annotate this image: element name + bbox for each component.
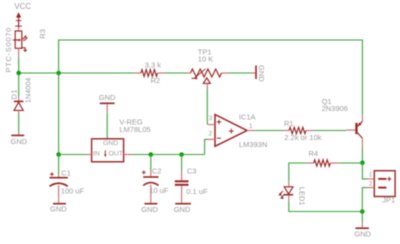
svg-text:JP1: JP1 [382, 196, 395, 205]
voltage regulator U2 LM78L05 [86, 139, 131, 162]
capacitor C1 100uF [50, 155, 68, 203]
wire 5V rail from OUT [131, 154, 205, 156]
junction (58.6,154.5) [56, 152, 61, 157]
wire JP1 pin1 from collector node [362, 163, 367, 179]
svg-text:VCC: VCC [14, 2, 31, 11]
svg-text:OUT: OUT [109, 151, 123, 158]
wire op-amp output to R1 [255, 130, 283, 132]
diode D1 1N4004 [14, 73, 24, 114]
wire bottom node to ground [361, 212, 363, 223]
svg-text:LM393N: LM393N [239, 140, 267, 149]
svg-text:GND: GND [103, 140, 118, 147]
svg-text:1N4004: 1N4004 [26, 78, 33, 103]
wire R4 line to collector node [339, 162, 362, 164]
svg-text:GND: GND [257, 65, 266, 82]
svg-text:PTC-S0070: PTC-S0070 [4, 27, 13, 73]
op-amp IC1A LM393N [208, 115, 255, 147]
resistor R2 3.3k [134, 70, 165, 77]
thermistor R3 (PTC-S0070) [13, 28, 28, 58]
junction collector node (362.4,162.8) [360, 161, 365, 166]
wire R2 to TP1 [165, 72, 187, 74]
svg-text:IN: IN [93, 151, 100, 158]
resistor R1 2.2k or 10k [284, 127, 314, 133]
junction node A (18.7,73) [16, 71, 21, 76]
ground under C1 [50, 204, 67, 214]
LED1 [278, 181, 293, 201]
svg-text:GND: GND [354, 229, 371, 238]
svg-text:R3: R3 [38, 29, 47, 39]
ground bottom right [354, 222, 371, 238]
capacitor C3 0.1uF [175, 155, 189, 203]
wire VCC raw node vertical left [18, 58, 20, 73]
svg-text:2: 2 [369, 181, 373, 188]
svg-text:C2: C2 [152, 166, 162, 175]
wire x=58.6 down to regulator input [58, 73, 60, 155]
svg-text:IC1A: IC1A [239, 112, 256, 121]
svg-text:LED1: LED1 [298, 187, 307, 206]
svg-text:1: 1 [369, 172, 373, 179]
ground above regulator (inverted) [99, 93, 116, 113]
wire JP1 pin2 to bottom node [362, 188, 367, 212]
junction bottom node (362.3,211.5) [360, 209, 365, 214]
svg-text:GND: GND [174, 205, 191, 214]
svg-text:GND: GND [11, 137, 28, 146]
wire TP1 wiper to op-amp + input [206, 89, 208, 125]
wire R4 left to LED riser [289, 163, 306, 181]
supply symbol VCC [14, 2, 31, 28]
svg-text:1: 1 [249, 123, 253, 130]
wire top VCC loop to Q1 emitter [59, 40, 363, 115]
svg-text:LM78L05: LM78L05 [119, 125, 150, 134]
wire raw rail y=73 left [19, 72, 134, 74]
svg-text:3: 3 [209, 115, 213, 122]
transistor Q1 2N3906 [346, 115, 363, 148]
svg-text:GND: GND [50, 205, 67, 214]
capacitor C2 10uF [142, 155, 159, 203]
svg-text:C3: C3 [187, 166, 197, 175]
svg-text:2.2k or 10k: 2.2k or 10k [284, 133, 321, 142]
svg-text:3.3 k: 3.3 k [145, 61, 162, 70]
svg-text:0.1 uF: 0.1 uF [186, 187, 208, 196]
svg-text:D1: D1 [10, 89, 19, 100]
svg-text:R2: R2 [151, 76, 161, 85]
svg-text:GND: GND [141, 205, 158, 214]
svg-text:10 K: 10 K [198, 54, 213, 63]
svg-text:2: 2 [209, 131, 213, 138]
svg-text:10 uF: 10 uF [149, 186, 169, 195]
potentiometer TP1 10K [187, 69, 229, 89]
wire LED to bottom rail [289, 202, 363, 212]
wire R1 to Q1 base [314, 130, 346, 132]
wire 5V rail up to op-amp - input [205, 139, 208, 154]
ground under D1 [11, 132, 28, 146]
junction C2 (150.8,154.5) [149, 152, 154, 157]
resistor R4 [306, 160, 339, 166]
svg-text:R4: R4 [309, 149, 319, 158]
junction C3 (181.6,154.5) [179, 152, 184, 157]
wire D1 to ground [18, 114, 20, 133]
connector JP1 [367, 171, 395, 197]
svg-text:100 uF: 100 uF [61, 187, 85, 196]
svg-text:R1: R1 [284, 119, 294, 128]
wire Q1 collector down [361, 148, 363, 163]
wire TP1 right to ground [229, 72, 252, 74]
svg-text:GND: GND [99, 93, 116, 102]
wire regulator IN rail [59, 154, 86, 156]
svg-text:2N3906: 2N3906 [322, 104, 348, 113]
junction (58.6,73) [56, 71, 61, 76]
ground right of TP1 (rotated) [252, 65, 266, 82]
svg-text:C1: C1 [61, 169, 71, 178]
ground under C2 [141, 204, 158, 214]
ground under C3 [174, 204, 191, 214]
wire regulator gnd pin [106, 113, 108, 139]
